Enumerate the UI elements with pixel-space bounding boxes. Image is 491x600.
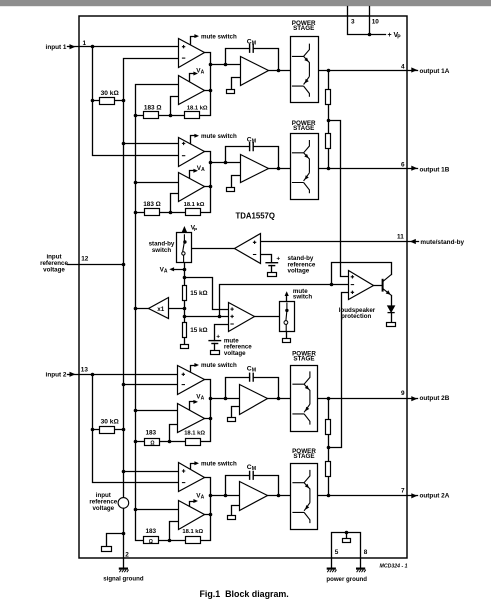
svg-text:5: 5 [335,549,339,556]
svg-text:output 2B: output 2B [420,395,450,402]
svg-text:mute switch: mute switch [201,133,237,140]
svg-text:13: 13 [81,366,89,373]
svg-text:9: 9 [401,390,405,397]
svg-text:183 Ω: 183 Ω [143,201,161,208]
svg-text:15 kΩ: 15 kΩ [190,327,207,334]
svg-text:CM: CM [247,366,256,374]
svg-text:1: 1 [83,40,87,47]
svg-text:11: 11 [397,234,404,241]
svg-text:183: 183 [145,430,156,437]
svg-text:4: 4 [401,63,405,70]
svg-text:output 1B: output 1B [420,166,450,173]
svg-text:10: 10 [372,18,380,25]
svg-text:30 kΩ: 30 kΩ [101,418,120,425]
svg-text:STAGE: STAGE [293,125,314,132]
svg-text:protection: protection [341,313,371,320]
svg-text:18.1 kΩ: 18.1 kΩ [187,105,208,111]
svg-text:power ground: power ground [326,576,367,583]
svg-text:30 kΩ: 30 kΩ [101,90,120,97]
svg-text:x1: x1 [157,306,165,313]
svg-text:18.1 kΩ: 18.1 kΩ [182,529,203,535]
svg-text:12: 12 [81,255,89,262]
svg-text:183: 183 [145,528,156,535]
svg-text:18.1 kΩ: 18.1 kΩ [184,202,205,208]
svg-text:183 Ω: 183 Ω [144,104,162,111]
svg-text:output 1A: output 1A [420,68,450,75]
svg-text:mute switch: mute switch [201,33,237,40]
svg-text:7: 7 [401,488,405,495]
svg-text:Ω: Ω [149,539,153,545]
svg-text:8: 8 [364,549,368,556]
svg-text:voltage: voltage [92,505,114,512]
svg-text:CM: CM [247,137,256,145]
svg-text:MCD324 - 1: MCD324 - 1 [380,563,408,569]
svg-text:Fig.1 Block diagram.: Fig.1 Block diagram. [200,589,289,599]
svg-text:voltage: voltage [224,350,246,357]
svg-text:switch: switch [152,247,171,254]
svg-text:CM: CM [247,39,256,47]
svg-text:VA: VA [160,267,168,275]
svg-text:15 kΩ: 15 kΩ [190,290,207,297]
svg-text:6: 6 [401,162,405,169]
svg-text:STAGE: STAGE [293,25,314,32]
svg-text:mute switch: mute switch [201,461,237,468]
svg-text:input 1: input 1 [46,44,67,51]
svg-text:VA: VA [196,393,204,401]
svg-text:VA: VA [197,165,205,173]
svg-text:18.1 kΩ: 18.1 kΩ [184,431,205,437]
svg-text:signal ground: signal ground [103,575,144,582]
svg-text:voltage: voltage [288,268,310,275]
svg-text:3: 3 [351,18,355,25]
svg-text:CM: CM [247,464,256,472]
svg-text:mute switch: mute switch [201,362,237,369]
svg-text:TDA1557Q: TDA1557Q [236,211,275,220]
svg-text:STAGE: STAGE [293,356,314,363]
svg-text:VA: VA [196,67,204,75]
svg-text:input 2: input 2 [46,372,67,379]
svg-text:voltage: voltage [43,267,65,274]
svg-text:Ω: Ω [150,440,154,446]
svg-text:mute/stand-by: mute/stand-by [420,239,464,246]
svg-text:output 2A: output 2A [420,492,450,499]
svg-text:+: + [216,334,220,341]
svg-text:STAGE: STAGE [293,453,314,460]
svg-text:+: + [276,256,280,263]
svg-text:switch: switch [293,294,312,301]
svg-text:2: 2 [125,552,129,559]
svg-text:VA: VA [196,492,204,500]
